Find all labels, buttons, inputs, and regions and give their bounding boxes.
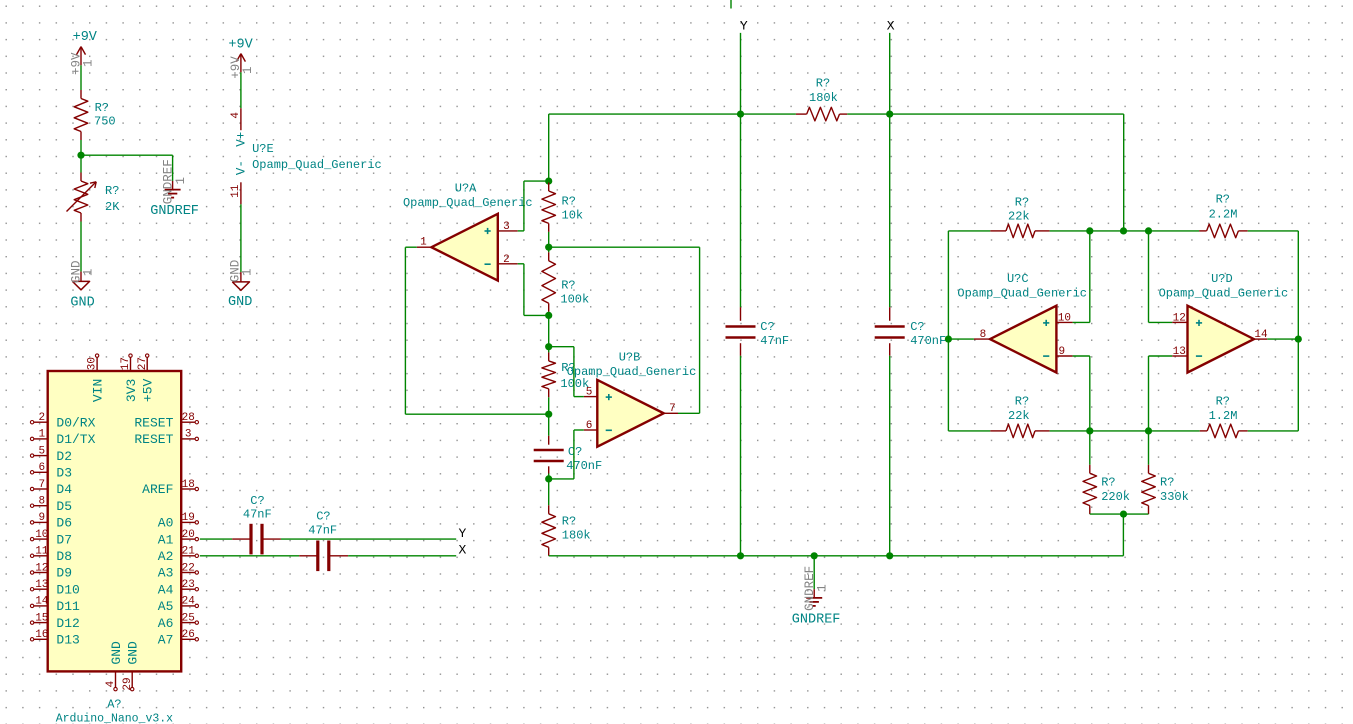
junction (77, 152, 84, 159)
wire pin14 to node (1267, 338, 1298, 340)
svg-text:Opamp_Quad_Generic: Opamp_Quad_Generic (957, 286, 1087, 300)
capacitor C1 47nF (Y line) (726, 320, 790, 348)
svg-text:D12: D12 (56, 616, 79, 631)
pin 22 A3 (right) (158, 562, 199, 580)
svg-text:1: 1 (38, 429, 45, 441)
svg-text:1: 1 (82, 59, 96, 67)
svg-text:GNDREF: GNDREF (150, 204, 199, 219)
wire X vertical lower (889, 343, 891, 556)
svg-text:Opamp_Quad_Generic: Opamp_Quad_Generic (252, 158, 382, 172)
net label Y (A1 wire) (459, 526, 467, 541)
pin 14 D11 (left) (30, 596, 80, 614)
svg-text:10: 10 (1058, 312, 1071, 324)
Arduino Nano body A? (48, 371, 182, 671)
pin 2 (U?A -) (498, 254, 518, 266)
svg-text:470nF: 470nF (566, 459, 602, 473)
svg-text:10k: 10k (562, 208, 584, 222)
svg-text:2K: 2K (105, 200, 120, 214)
wire C3 to label Y (262, 538, 456, 540)
svg-text:C?: C? (760, 320, 774, 334)
hidden pin label +9V 1 (229, 56, 255, 79)
wire (1248, 430, 1299, 432)
op-amp U?E power pins (230, 108, 249, 204)
capacitor C3 47nF (243, 494, 272, 554)
wire to GNDREF (81, 155, 173, 181)
svg-text:9: 9 (1058, 346, 1065, 358)
pin 13 D10 (left) (30, 579, 79, 597)
svg-text:18: 18 (182, 479, 195, 491)
wire (1149, 230, 1200, 232)
svg-text:19: 19 (182, 512, 195, 524)
svg-text:2: 2 (38, 412, 45, 424)
net label X (A2 wire) (459, 543, 467, 558)
svg-text:D5: D5 (56, 499, 72, 514)
power flag +9V (PWR2) (228, 38, 253, 73)
label GNDREF (792, 613, 841, 628)
svg-text:GND: GND (109, 641, 124, 665)
svg-text:RESET: RESET (134, 432, 173, 447)
svg-text:180k: 180k (562, 529, 591, 543)
label A? Arduino_Nano_v3.x (56, 698, 173, 724)
junction (886, 111, 893, 118)
svg-text:V-: V- (234, 160, 248, 175)
pin 25 A6 (right) (158, 612, 199, 630)
ground GNDREF (bottom) (806, 589, 822, 606)
svg-text:29: 29 (122, 677, 134, 690)
junction (545, 178, 552, 185)
ground GND (col1) (72, 272, 89, 290)
svg-text:Opamp_Quad_Generic: Opamp_Quad_Generic (1159, 286, 1289, 300)
pin 13 (U?D -) (1172, 346, 1187, 358)
label GND (228, 295, 252, 310)
svg-text:3: 3 (503, 221, 510, 233)
wire top bus (549, 113, 1124, 115)
svg-text:47nF: 47nF (243, 508, 272, 522)
capacitor C2 470nF (X line) (875, 320, 947, 348)
svg-text:1.2M: 1.2M (1209, 409, 1238, 423)
wire (240, 204, 242, 272)
resistor R9 180k (542, 505, 591, 556)
svg-text:10: 10 (35, 529, 48, 541)
svg-text:R?: R? (1216, 193, 1230, 207)
wire A2 to C4 (200, 555, 318, 557)
svg-text:GNDREF: GNDREF (792, 613, 841, 628)
svg-text:R?: R? (1015, 195, 1029, 209)
wire pin6 to node (549, 430, 584, 479)
wire (548, 479, 550, 505)
svg-text:220k: 220k (1101, 490, 1130, 504)
resistor R5 180k (top) (796, 77, 847, 121)
wire (548, 312, 550, 316)
junction (1086, 227, 1093, 234)
resistor R11 2.2M (top) (1199, 193, 1248, 238)
svg-text:C?: C? (910, 320, 924, 334)
junction (545, 475, 552, 482)
svg-text:6: 6 (586, 420, 593, 432)
svg-text:X: X (459, 543, 467, 558)
svg-text:22k: 22k (1008, 409, 1030, 423)
svg-text:1: 1 (420, 237, 427, 249)
junction (1295, 336, 1302, 343)
label U?E (252, 142, 382, 172)
pin 2 D0/RX (left) (30, 412, 95, 430)
pin 26 A7 (right) (158, 629, 199, 647)
svg-text:3V3: 3V3 (124, 379, 139, 402)
ground GNDREF (top-left) (165, 181, 181, 198)
svg-text:7: 7 (38, 479, 45, 491)
svg-text:3: 3 (185, 429, 192, 441)
svg-text:A7: A7 (158, 633, 174, 648)
svg-text:GND: GND (228, 295, 252, 310)
op-amp U2B (567, 350, 697, 446)
pin 16 D13 (left) (30, 629, 79, 647)
svg-text:D4: D4 (56, 482, 72, 497)
svg-text:U?B: U?B (619, 350, 641, 364)
svg-text:GND: GND (70, 295, 94, 310)
pin 15 D12 (left) (30, 612, 79, 630)
junction (1086, 427, 1093, 434)
svg-text:D1/TX: D1/TX (56, 432, 95, 447)
wire pin10 to row (1073, 231, 1090, 323)
svg-text:4: 4 (105, 680, 117, 687)
svg-text:Y: Y (740, 19, 748, 34)
wire Y vertical lower (740, 343, 742, 556)
wire U?C bottom feedback row (948, 430, 990, 432)
pin 18 AREF (right) (142, 479, 198, 497)
pin 21 A2 (right) (158, 546, 199, 564)
hidden pin label +9V 1 (69, 52, 95, 75)
svg-text:4: 4 (230, 112, 242, 119)
svg-text:26: 26 (182, 629, 195, 641)
svg-text:X: X (887, 19, 895, 34)
wire (548, 315, 550, 352)
junction (1145, 427, 1152, 434)
svg-text:14: 14 (35, 596, 49, 608)
svg-text:A2: A2 (158, 549, 174, 564)
wire (1050, 230, 1149, 232)
svg-text:+9V: +9V (228, 38, 253, 53)
svg-text:GND: GND (126, 641, 141, 665)
pin 3 RESET (right) (134, 429, 198, 447)
pin 29 GND (bottom) (122, 641, 141, 691)
pin 12 (U?D +) (1172, 312, 1187, 324)
svg-text:750: 750 (94, 115, 116, 129)
wire GNDREF drop (813, 556, 815, 589)
pin 14 (U?D out) (1254, 329, 1268, 341)
svg-text:A4: A4 (158, 582, 174, 597)
svg-text:V+: V+ (234, 132, 248, 147)
svg-text:9: 9 (38, 512, 45, 524)
wire (80, 65, 82, 90)
svg-text:Opamp_Quad_Generic: Opamp_Quad_Generic (403, 196, 533, 210)
svg-text:1: 1 (240, 269, 254, 277)
wire pin8 to node (948, 338, 974, 340)
svg-text:D2: D2 (56, 449, 72, 464)
svg-text:2.2M: 2.2M (1209, 208, 1238, 222)
svg-text:R?: R? (1216, 395, 1230, 409)
svg-text:R?: R? (562, 195, 576, 209)
resistor R7 100k (542, 252, 589, 311)
wire (1248, 230, 1299, 232)
svg-text:15: 15 (35, 612, 48, 624)
pin 19 A0 (right) (158, 512, 199, 530)
potentiometer R2 2K (67, 173, 121, 222)
wire Y vertical upper (740, 33, 742, 321)
svg-text:1: 1 (174, 177, 188, 185)
svg-text:24: 24 (182, 596, 196, 608)
pin 20 A1 (right) (158, 529, 199, 547)
pin 3 (U?A +) (498, 221, 518, 233)
svg-text:D13: D13 (56, 633, 79, 648)
wire (80, 222, 82, 272)
svg-text:U?E: U?E (252, 142, 274, 156)
wire (80, 140, 82, 173)
junction (737, 552, 744, 559)
capacitor C5 470nF (534, 445, 603, 473)
resistor R1 750 (74, 90, 115, 140)
hidden pin label GNDREF 1 (161, 159, 188, 204)
svg-text:47nF: 47nF (760, 334, 789, 348)
junction (1120, 227, 1127, 234)
svg-text:D3: D3 (56, 466, 72, 481)
pin 11 D8 (left) (30, 546, 72, 564)
svg-text:A6: A6 (158, 616, 174, 631)
junction (945, 336, 952, 343)
svg-text:1: 1 (241, 66, 255, 74)
svg-text:R?: R? (562, 514, 576, 528)
svg-text:C?: C? (316, 509, 330, 523)
wire bus left drop (548, 114, 550, 181)
svg-text:5: 5 (38, 445, 45, 457)
label GND (70, 295, 94, 310)
svg-text:11: 11 (230, 184, 242, 198)
junction (545, 312, 552, 319)
svg-text:100k: 100k (560, 293, 589, 307)
svg-text:A?: A? (107, 698, 121, 712)
svg-text:R?: R? (1101, 476, 1115, 490)
pin 4 GND (bottom) (105, 641, 124, 691)
svg-text:D7: D7 (56, 532, 72, 547)
svg-text:6: 6 (38, 462, 45, 474)
pin 6 (U?B -) (584, 420, 598, 432)
capacitor C4 47nF (308, 509, 337, 571)
svg-text:D8: D8 (56, 549, 72, 564)
svg-text:27: 27 (137, 357, 149, 370)
svg-text:A5: A5 (158, 599, 174, 614)
resistor R14 220k (1083, 465, 1130, 514)
pin 9 (U?C -) (1056, 346, 1072, 358)
pin 5 (U?B +) (584, 387, 598, 399)
pin 5 D2 (left) (30, 445, 72, 463)
svg-text:28: 28 (182, 412, 195, 424)
svg-text:D6: D6 (56, 516, 72, 531)
svg-text:RESET: RESET (134, 415, 173, 430)
svg-text:+9V: +9V (73, 30, 98, 45)
svg-text:12: 12 (35, 562, 48, 574)
svg-text:20: 20 (182, 529, 195, 541)
pin 9 D6 (left) (30, 512, 72, 530)
svg-text:5: 5 (586, 387, 593, 399)
pin 7 D4 (left) (30, 479, 72, 497)
svg-text:25: 25 (182, 612, 195, 624)
wire 330k drop (1148, 431, 1150, 465)
ground GND (col2) (232, 272, 249, 290)
wire X vertical upper (889, 33, 891, 321)
wire right feedback vertical (1297, 231, 1299, 431)
svg-text:8: 8 (980, 329, 987, 341)
svg-text:2: 2 (503, 254, 510, 266)
svg-text:VIN: VIN (90, 379, 105, 402)
wire node to U?B loop (549, 247, 700, 413)
svg-text:A0: A0 (158, 516, 174, 531)
svg-text:13: 13 (35, 579, 48, 591)
wire bus right drop (1123, 114, 1125, 231)
svg-text:R?: R? (816, 77, 830, 91)
svg-text:D0/RX: D0/RX (56, 415, 95, 430)
wire (548, 414, 550, 445)
junction (811, 552, 818, 559)
svg-text:C?: C? (250, 494, 264, 508)
pin 17 3V3 (top) (120, 354, 139, 402)
svg-text:A3: A3 (158, 566, 174, 581)
svg-text:7: 7 (669, 403, 676, 415)
svg-text:1: 1 (815, 584, 829, 592)
svg-text:R?: R? (105, 184, 119, 198)
pin 24 A5 (right) (158, 596, 199, 614)
wire 220k drop (1089, 431, 1091, 465)
pin 10 (U?C +) (1056, 312, 1072, 324)
svg-text:21: 21 (182, 546, 196, 558)
junction (545, 411, 552, 418)
resistor R15 330k (1142, 465, 1189, 514)
svg-text:23: 23 (182, 579, 195, 591)
svg-text:U?C: U?C (1007, 272, 1029, 286)
svg-text:D9: D9 (56, 566, 72, 581)
wire (548, 397, 550, 414)
wire pin13 to row (1149, 356, 1173, 431)
wire pin9 to row (1073, 356, 1090, 431)
pin 8 (U?C out) (974, 329, 990, 341)
svg-text:30: 30 (87, 357, 99, 370)
wire pin12 to row (1149, 231, 1173, 323)
op-amp U1A (403, 182, 533, 281)
svg-text:Arduino_Nano_v3.x: Arduino_Nano_v3.x (56, 713, 173, 724)
wire stub off-sheet (730, 0, 732, 9)
wire (1050, 430, 1149, 432)
svg-text:1: 1 (82, 269, 96, 277)
svg-text:Y: Y (459, 526, 467, 541)
wire C4 to label X (329, 555, 456, 557)
hidden pin label GND 1 (229, 260, 255, 283)
wire U?C top feedback row (948, 230, 990, 232)
wire pin3 to node (518, 181, 549, 231)
svg-text:47nF: 47nF (308, 524, 337, 538)
wire pin2 to node (518, 264, 549, 316)
svg-text:D11: D11 (56, 599, 80, 614)
svg-text:R?: R? (561, 279, 575, 293)
svg-text:22k: 22k (1008, 210, 1030, 224)
svg-text:AREF: AREF (142, 482, 173, 497)
svg-text:R?: R? (1160, 476, 1174, 490)
wire left feedback vertical (947, 231, 949, 431)
pin 1 (U?A out) (417, 237, 432, 249)
op-amp U4D (1159, 272, 1289, 373)
svg-text:470nF: 470nF (910, 334, 946, 348)
op-amp U3C (957, 272, 1087, 373)
wire (240, 72, 242, 108)
wire (1149, 430, 1200, 432)
svg-text:13: 13 (1173, 346, 1186, 358)
wire pin5 to node (549, 347, 584, 397)
hidden pin label GND 1 (70, 261, 96, 284)
resistor R6 10k (542, 183, 583, 232)
pin 6 D3 (left) (30, 462, 72, 480)
pin 7 (U?B out) (664, 403, 678, 415)
svg-text:14: 14 (1254, 329, 1268, 341)
svg-text:12: 12 (1173, 312, 1186, 324)
svg-text:C?: C? (568, 445, 582, 459)
svg-text:180k: 180k (809, 91, 838, 105)
wire U?A feedback (405, 247, 548, 414)
junction (1120, 510, 1127, 517)
pin 27 +5V (top) (137, 354, 156, 402)
svg-text:D10: D10 (56, 582, 79, 597)
svg-text:22: 22 (182, 562, 195, 574)
pin 8 D5 (left) (30, 496, 72, 514)
junction (545, 244, 552, 251)
svg-text:R?: R? (1015, 395, 1029, 409)
svg-text:17: 17 (120, 357, 132, 370)
wire 220k-330k join (1090, 513, 1149, 515)
pin 30 VIN (top) (87, 354, 106, 402)
junction (737, 111, 744, 118)
label GNDREF (150, 204, 199, 219)
pin 28 RESET (right) (134, 412, 198, 430)
wire (548, 466, 550, 479)
resistor R8 100k (542, 352, 589, 397)
net label Y (top) (740, 19, 748, 34)
pin 23 A4 (right) (158, 579, 199, 597)
power flag +9V (PWR1) (73, 30, 98, 65)
pin 12 D9 (left) (30, 562, 72, 580)
pin 1 D1/TX (left) (30, 429, 95, 447)
svg-text:R?: R? (95, 101, 109, 115)
resistor R13 1.2M (bottom) (1200, 395, 1248, 438)
svg-text:16: 16 (35, 629, 48, 641)
wire (548, 232, 550, 252)
junction (1145, 227, 1152, 234)
hidden pin label GNDREF 1 (803, 566, 829, 611)
resistor R12 22k (bottom) (990, 395, 1049, 438)
net label X (top) (887, 19, 895, 34)
svg-text:Opamp_Quad_Generic: Opamp_Quad_Generic (567, 365, 697, 379)
svg-text:U?D: U?D (1211, 272, 1233, 286)
junction (545, 343, 552, 350)
resistor R10 22k (top) (990, 195, 1049, 237)
svg-text:U?A: U?A (455, 182, 477, 196)
svg-text:11: 11 (35, 546, 49, 558)
svg-text:8: 8 (38, 496, 45, 508)
junction (886, 552, 893, 559)
svg-text:330k: 330k (1160, 490, 1189, 504)
wire bottom bus (549, 514, 1124, 556)
wire A1 to C3 (200, 538, 251, 540)
pin 10 D7 (left) (30, 529, 72, 547)
svg-text:A1: A1 (158, 532, 174, 547)
svg-text:+5V: +5V (141, 379, 156, 403)
